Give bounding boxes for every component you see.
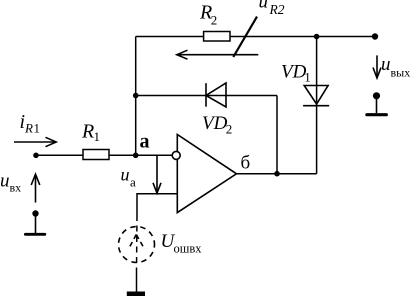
arrow u_vyh (down) — [373, 55, 381, 78]
arrow u_a (down) — [153, 156, 161, 193]
resistor R2 — [204, 32, 230, 42]
svg-text:ошвх: ошвх — [174, 242, 203, 256]
wire dashed through source — [136, 215, 139, 271]
label u_vx — [0, 171, 21, 195]
source arrowhead (dashed, pointing up) — [129, 235, 144, 249]
arrow u_vx (up) — [31, 174, 40, 202]
op-amp inverting bubble — [172, 151, 180, 159]
label VD2 — [202, 113, 232, 137]
wire top feedback — [136, 36, 375, 38]
wire VD2 branch horizontal — [136, 95, 277, 97]
diode VD2 — [206, 83, 226, 107]
node output junction — [274, 171, 280, 177]
wire noninverting input — [137, 194, 177, 215]
svg-text:R: R — [24, 121, 33, 136]
terminal right (u_vyh reference) — [367, 92, 386, 114]
node feedback end — [372, 33, 378, 39]
label R1 — [81, 120, 100, 144]
node a — [133, 153, 139, 159]
wire VD2 branch vertical down to output — [276, 96, 278, 174]
svg-text:вх: вх — [10, 181, 22, 195]
label i_R1 — [20, 111, 41, 136]
source U_oshvx dashed circle — [119, 227, 155, 263]
svg-text:вых: вых — [391, 66, 411, 80]
label U_oshvx — [161, 231, 203, 256]
op-amp U1 — [177, 135, 236, 213]
svg-text:1: 1 — [34, 121, 41, 136]
diode VD1 — [303, 86, 329, 106]
svg-text:а: а — [140, 131, 150, 153]
svg-text:u: u — [121, 165, 130, 185]
ground under source — [127, 292, 145, 296]
svg-text:1: 1 — [94, 129, 101, 144]
wire input — [36, 154, 172, 156]
node dot input — [33, 153, 39, 159]
svg-text:u: u — [0, 171, 10, 192]
leader diagonal to u_R2 label — [233, 17, 257, 57]
resistor R1 — [83, 150, 109, 160]
svg-text:u: u — [259, 0, 269, 13]
svg-text:VD: VD — [281, 61, 307, 82]
node VD2 junction — [133, 93, 139, 99]
svg-text:2: 2 — [226, 121, 233, 136]
svg-text:1: 1 — [304, 70, 311, 85]
svg-text:R2: R2 — [269, 2, 285, 17]
arrow i_R1 — [14, 137, 56, 146]
terminal left (u_vx reference) — [25, 210, 44, 234]
label u_R2 — [259, 0, 285, 17]
label VD1 — [281, 61, 311, 84]
svg-text:VD: VD — [202, 113, 228, 134]
svg-text:б: б — [241, 152, 251, 173]
node VD1 top junction — [314, 34, 320, 40]
svg-text:R: R — [81, 120, 94, 142]
wire output — [237, 173, 317, 175]
svg-text:u: u — [381, 54, 391, 75]
wire left vertical from node a up — [135, 37, 137, 156]
svg-text:а: а — [130, 175, 136, 190]
label u_a — [121, 165, 137, 190]
arrow u_R2 (left, under R2) — [177, 50, 259, 59]
label u_vyh — [381, 54, 410, 80]
wire source to ground — [136, 271, 138, 292]
label R2 — [199, 1, 217, 27]
svg-text:2: 2 — [211, 13, 218, 28]
wire VD1 vertical — [316, 37, 318, 174]
